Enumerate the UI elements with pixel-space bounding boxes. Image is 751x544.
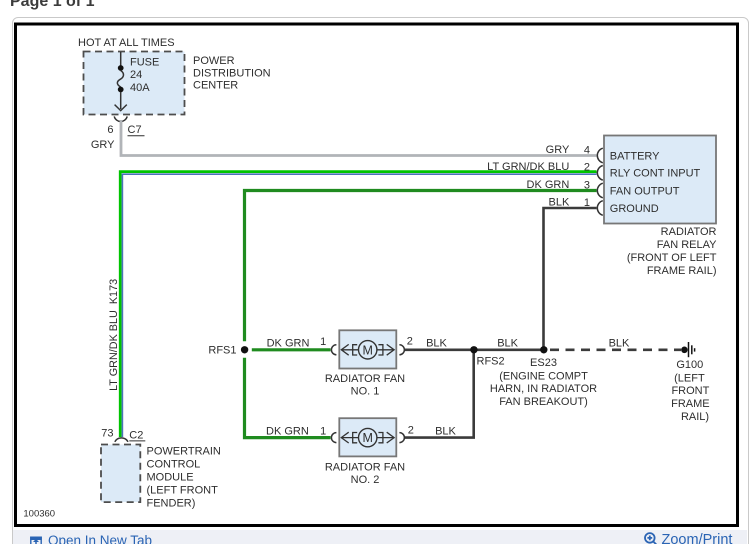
node fuse bottom dot	[118, 87, 124, 93]
female connector half C2	[115, 438, 128, 442]
svg-text:(LEFT: (LEFT	[674, 372, 705, 384]
svg-text:ES23: ES23	[530, 357, 557, 369]
page header label	[10, 0, 94, 11]
wire GRY fuse to relay pin 4	[121, 120, 597, 156]
svg-text:CONTROL: CONTROL	[147, 459, 201, 471]
svg-text:GRY: GRY	[546, 144, 570, 156]
connector pin 1 arc	[597, 201, 602, 216]
open-in-new-tab icon	[30, 537, 42, 544]
relay box radiator fan relay	[604, 136, 716, 224]
svg-text:C7: C7	[128, 124, 142, 136]
svg-text:(ENGINE COMPT: (ENGINE COMPT	[499, 370, 588, 382]
wire DK GRN node RFS1 to radiator fan no.2	[245, 358, 331, 438]
ground G100	[681, 342, 694, 357]
svg-text:RAIL): RAIL)	[681, 411, 709, 423]
link Open In New Tab	[48, 533, 152, 544]
svg-text:24: 24	[130, 69, 142, 81]
svg-text:73: 73	[101, 428, 113, 440]
svg-text:M: M	[362, 343, 372, 357]
svg-text:RADIATOR FAN: RADIATOR FAN	[325, 373, 405, 385]
node RFS1	[241, 346, 248, 353]
svg-text:NO. 1: NO. 1	[351, 385, 380, 397]
svg-text:40A: 40A	[130, 82, 150, 94]
link Zoom/Print	[662, 532, 733, 544]
svg-text:DK GRN: DK GRN	[266, 426, 309, 438]
svg-text:FRONT: FRONT	[671, 385, 709, 397]
svg-text:FAN OUTPUT: FAN OUTPUT	[610, 185, 680, 197]
svg-text:FAN BREAKOUT): FAN BREAKOUT)	[499, 396, 588, 408]
arrow male connector half C7	[115, 105, 127, 111]
svg-text:RADIATOR FAN: RADIATOR FAN	[325, 461, 405, 473]
svg-text:POWER: POWER	[193, 55, 235, 67]
connector pin 3 arc	[597, 183, 602, 198]
zoom/print magnifier icon	[645, 533, 658, 544]
svg-text:RADIATOR: RADIATOR	[661, 226, 717, 238]
motor M1 radiator fan no.1	[331, 330, 404, 368]
svg-text:LT GRN/DK BLU: LT GRN/DK BLU	[487, 161, 569, 173]
svg-text:FENDER): FENDER)	[147, 498, 196, 510]
wire DK GRN node RFS1 to radiator fan no.1	[252, 348, 331, 351]
wire fuse output	[120, 92, 122, 109]
power distribution center box	[84, 52, 185, 115]
svg-text:1: 1	[320, 336, 326, 348]
svg-text:DK GRN: DK GRN	[267, 337, 310, 349]
svg-text:RLY CONT INPUT: RLY CONT INPUT	[610, 168, 701, 180]
svg-text:1: 1	[584, 197, 590, 209]
svg-text:RFS2: RFS2	[477, 356, 505, 368]
svg-text:G100: G100	[676, 359, 703, 371]
wire BLK fan1 to RFS2 to ES23	[404, 348, 544, 351]
svg-text:LT GRN/DK BLU K173: LT GRN/DK BLU K173	[108, 279, 120, 391]
wire BLK RFS2 down to fan2	[404, 350, 473, 438]
svg-text:DISTRIBUTION: DISTRIBUTION	[193, 67, 271, 79]
svg-text:BLK: BLK	[497, 337, 518, 349]
svg-text:2: 2	[408, 424, 414, 436]
svg-text:BLK: BLK	[609, 337, 630, 349]
svg-text:100360: 100360	[23, 509, 55, 520]
wire LT GRN/DK BLU blue tracer	[122, 174, 596, 437]
svg-text:C2: C2	[129, 429, 143, 441]
svg-text:3: 3	[584, 179, 590, 191]
svg-text:BLK: BLK	[435, 426, 456, 438]
node fuse top dot	[118, 65, 124, 71]
svg-text:HOT AT ALL TIMES: HOT AT ALL TIMES	[78, 37, 175, 49]
svg-text:NO. 2: NO. 2	[351, 474, 380, 486]
svg-text:FRAME RAIL): FRAME RAIL)	[647, 265, 717, 277]
fuse F24 element	[117, 71, 123, 88]
svg-text:BLK: BLK	[426, 337, 447, 349]
svg-text:RFS1: RFS1	[208, 345, 236, 357]
svg-text:FUSE: FUSE	[130, 57, 159, 69]
svg-text:4: 4	[584, 144, 590, 156]
svg-text:MODULE: MODULE	[147, 472, 194, 484]
svg-text:DK GRN: DK GRN	[527, 179, 570, 191]
node ES23	[540, 346, 547, 353]
motor M2 radiator fan no.2	[331, 418, 404, 456]
svg-text:6: 6	[107, 124, 113, 136]
node RFS2	[470, 346, 477, 353]
svg-text:GROUND: GROUND	[610, 203, 659, 215]
svg-text:GRY: GRY	[91, 139, 115, 151]
connector pin 4 arc	[597, 148, 602, 163]
svg-text:(FRONT OF LEFT: (FRONT OF LEFT	[627, 252, 717, 264]
svg-text:2: 2	[407, 335, 413, 347]
wire LT GRN/DK BLU green stripe PCM to relay pin 2	[120, 172, 596, 437]
connector pin 2 arc	[597, 166, 602, 181]
svg-text:HARN, IN RADIATOR: HARN, IN RADIATOR	[490, 383, 597, 395]
svg-text:BATTERY: BATTERY	[610, 150, 660, 162]
wire DK GRN relay pin 3 to node RFS1	[245, 191, 597, 342]
svg-text:2: 2	[584, 162, 590, 174]
svg-text:(LEFT FRONT: (LEFT FRONT	[147, 485, 219, 497]
svg-text:CENTER: CENTER	[193, 80, 238, 92]
svg-text:FAN RELAY: FAN RELAY	[657, 239, 717, 251]
svg-text:POWERTRAIN: POWERTRAIN	[147, 446, 221, 458]
svg-text:BLK: BLK	[549, 197, 570, 209]
wire BLK relay pin 1 to node ES23	[544, 208, 597, 350]
svg-text:M: M	[362, 431, 372, 445]
footer bar	[13, 530, 747, 544]
wire BLK dashed ES23 to G100	[550, 348, 681, 351]
wire fuse feed	[120, 52, 122, 66]
svg-text:FRAME: FRAME	[671, 398, 710, 410]
female connector half C7	[114, 116, 127, 121]
powertrain control module box	[101, 445, 140, 503]
svg-text:1: 1	[320, 426, 326, 438]
